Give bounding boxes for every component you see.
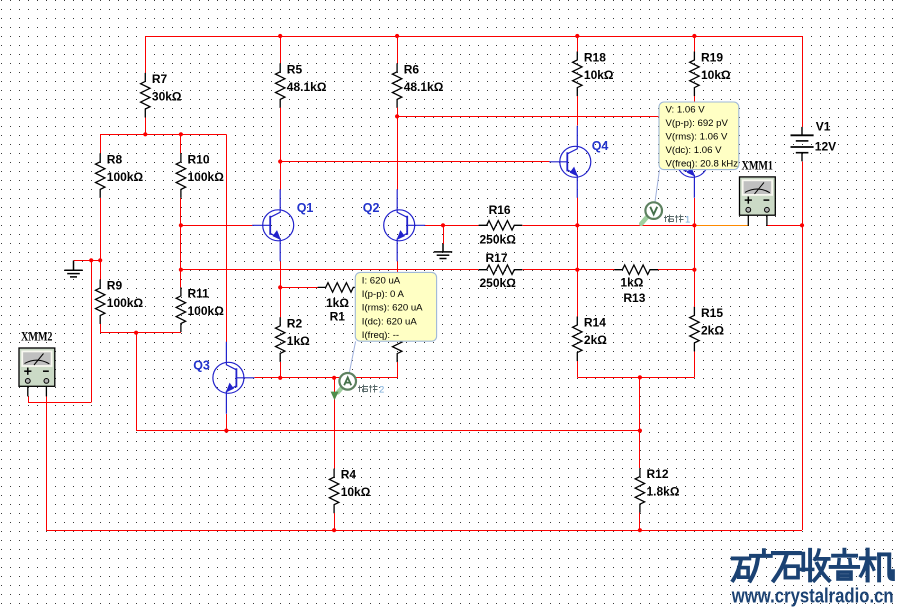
svg-text:R6: R6 xyxy=(404,62,420,76)
wire R13 right xyxy=(657,269,659,271)
resistor R16 xyxy=(479,221,523,230)
wire R6 top xyxy=(397,36,399,63)
svg-text:R8: R8 xyxy=(107,152,123,166)
wire R18 top xyxy=(577,36,579,52)
wire R1 right xyxy=(360,287,362,289)
resistor R11 xyxy=(176,287,185,332)
junction top R5 xyxy=(278,34,282,38)
svg-text:I(dc): 620 uA: I(dc): 620 uA xyxy=(362,316,418,327)
svg-text:V: 1.06 V: V: 1.06 V xyxy=(666,105,706,116)
svg-text:R15: R15 xyxy=(701,306,723,320)
battery V1 xyxy=(791,127,814,161)
wire V1 bottom to rail xyxy=(802,161,804,530)
wire R2 bottom xyxy=(280,362,282,378)
svg-text:R5: R5 xyxy=(287,62,303,76)
svg-text:V(rms): 1.06 V: V(rms): 1.06 V xyxy=(666,132,728,143)
wire XMM2 + link xyxy=(28,402,91,404)
wire R3 bottom xyxy=(397,362,399,378)
svg-text:R14: R14 xyxy=(584,316,606,330)
wire XMM1 - lead xyxy=(766,215,768,226)
wire Q2 base to ground node xyxy=(425,225,478,227)
wire R2 top xyxy=(280,287,282,317)
junction R9-R11 link drop xyxy=(134,331,138,335)
resistor R3 xyxy=(393,318,402,363)
wire R12 bottom xyxy=(639,513,641,531)
junction R8/R9 xyxy=(98,258,102,262)
watermark logo text (kuang shi shou yin ji) xyxy=(733,550,893,581)
wire R10 top xyxy=(180,134,182,153)
resistor R4 xyxy=(329,469,338,514)
wire Q4 emitter to R14 xyxy=(577,197,579,316)
svg-text:1kΩ: 1kΩ xyxy=(326,296,349,310)
wire R6 node to Q5 base (h) xyxy=(397,116,660,118)
svg-text:Q3: Q3 xyxy=(193,358,210,372)
svg-text:I: 620 uA: I: 620 uA xyxy=(362,275,401,286)
svg-text:Q1: Q1 xyxy=(297,201,314,215)
svg-text:10kΩ: 10kΩ xyxy=(701,68,731,82)
wire R5 bottom xyxy=(280,108,282,162)
wire R9 bottom xyxy=(100,324,102,333)
wire R18 bottom xyxy=(577,96,579,125)
svg-text:R1: R1 xyxy=(330,310,346,324)
resistor R6 xyxy=(392,63,401,108)
svg-text:100kΩ: 100kΩ xyxy=(107,170,144,184)
wire R15 top xyxy=(694,270,696,307)
resistor R13 xyxy=(614,265,658,274)
wire Q3 emitter to rail xyxy=(226,414,228,431)
junction R10 col/R17 line xyxy=(179,268,183,272)
svg-text:1kΩ: 1kΩ xyxy=(287,334,310,348)
junction top R19 xyxy=(692,34,696,38)
svg-text:100kΩ: 100kΩ xyxy=(188,304,225,318)
wire R7 bottom xyxy=(145,118,147,135)
resistor R5 xyxy=(276,63,285,108)
junction Q2 base/ground xyxy=(441,223,445,227)
junction XMM2 riser xyxy=(89,258,93,262)
tooltip probe 1 measurements xyxy=(659,102,739,170)
probe 1 (V) xyxy=(641,202,662,224)
wire top rail xyxy=(145,36,802,38)
wire XMM1 - to V1 net xyxy=(767,225,802,227)
svg-text:V(freq): 20.8 kHz: V(freq): 20.8 kHz xyxy=(666,159,739,170)
probe 2 (A) xyxy=(331,373,356,400)
label probe 1 xyxy=(664,215,684,223)
svg-text:Q4: Q4 xyxy=(592,139,609,153)
svg-text:R18: R18 xyxy=(584,51,606,65)
svg-text:R9: R9 xyxy=(107,278,123,292)
svg-text:V(p-p): 692 pV: V(p-p): 692 pV xyxy=(666,118,729,129)
ground GND left xyxy=(64,261,82,277)
wire R3 top xyxy=(397,262,399,318)
wire R8 top xyxy=(100,134,102,153)
svg-text:1kΩ: 1kΩ xyxy=(620,276,643,290)
junction R12 bottom xyxy=(638,528,642,532)
multimeter XMM2 xyxy=(19,348,55,386)
wire R19 top xyxy=(694,36,696,52)
wire XMM2 + lead lower xyxy=(28,396,30,402)
multimeter XMM1 xyxy=(740,177,776,215)
svg-text:I(freq): --: I(freq): -- xyxy=(362,330,399,341)
wire Q3 base node line xyxy=(254,377,397,379)
svg-text:I(rms): 620 uA: I(rms): 620 uA xyxy=(362,303,423,314)
svg-text:250kΩ: 250kΩ xyxy=(480,232,517,246)
resistor R15 xyxy=(690,307,699,352)
wire Q1 emitter node to R1 xyxy=(280,287,318,289)
svg-text:2kΩ: 2kΩ xyxy=(701,323,724,337)
transistor Q2 xyxy=(384,189,426,261)
wire R4 bottom xyxy=(334,513,336,530)
wire R16 left xyxy=(443,225,479,227)
wire R11 top xyxy=(180,270,182,288)
wire R5 top xyxy=(280,36,282,63)
wire R13 to R15 node xyxy=(658,269,694,271)
wire R8-R7-R10 link xyxy=(100,134,226,136)
wire R17 left xyxy=(181,269,479,271)
wire R4 top xyxy=(334,468,336,469)
junction R17/R13/R14 xyxy=(575,268,579,272)
wire R11 node to R17 xyxy=(181,269,478,271)
svg-text:XMM1: XMM1 xyxy=(742,157,774,172)
wire R10 to R11 link xyxy=(180,225,182,269)
svg-text:R12: R12 xyxy=(647,467,669,481)
svg-text:www.crystalradio.cn: www.crystalradio.cn xyxy=(731,586,894,608)
resistor R17 xyxy=(479,265,523,274)
svg-text:R4: R4 xyxy=(341,468,357,482)
leader line probe 2 xyxy=(349,341,355,372)
svg-text:XMM2: XMM2 xyxy=(21,329,53,344)
resistor R1 xyxy=(318,283,362,292)
junction R5/Q1 collector/Q4 base xyxy=(278,159,282,163)
resistor R8 xyxy=(96,153,105,198)
wire R17 to R13 xyxy=(531,269,617,271)
svg-text:48.1kΩ: 48.1kΩ xyxy=(404,80,444,94)
wire R9 top xyxy=(100,260,102,279)
wire R11 bottom xyxy=(180,331,182,334)
junction top R18 xyxy=(575,34,579,38)
svg-text:R7: R7 xyxy=(152,72,168,86)
junction top R6 xyxy=(395,34,399,38)
resistor R9 xyxy=(96,279,105,324)
svg-text:1: 1 xyxy=(685,215,690,226)
svg-text:100kΩ: 100kΩ xyxy=(188,170,225,184)
wire R7 top xyxy=(145,36,147,73)
svg-text:R16: R16 xyxy=(489,203,511,217)
junction XMM1 -/V1 xyxy=(800,223,804,227)
svg-text:250kΩ: 250kΩ xyxy=(480,276,517,290)
wire XMM1 + lead xyxy=(747,215,749,226)
wire XMM2 + riser xyxy=(91,260,93,402)
label probe 2 xyxy=(358,385,378,393)
wire R1 left xyxy=(280,287,318,289)
transistor Q5 xyxy=(666,126,708,198)
junction Q1 base tap xyxy=(179,223,183,227)
transistor Q1 xyxy=(252,189,294,261)
wire R12 top xyxy=(639,467,641,469)
junction rail/R12 xyxy=(638,429,642,433)
wire R6 to Q2 collector xyxy=(397,107,399,189)
resistor R12 xyxy=(635,468,644,513)
wire Q1 base xyxy=(181,225,252,227)
junction R4 bottom xyxy=(332,528,336,532)
junction probe 2/R4 xyxy=(332,376,336,380)
wire Q2 emitter to R3 xyxy=(397,262,399,313)
wire R1 to Q2 emitter column (hidden) xyxy=(361,287,397,289)
junction R14-R15 mid xyxy=(638,375,642,379)
wire R8 bottom xyxy=(100,198,102,260)
svg-text:2: 2 xyxy=(379,385,384,396)
svg-text:R19: R19 xyxy=(701,51,723,65)
svg-text:R11: R11 xyxy=(188,286,210,300)
svg-text:R2: R2 xyxy=(287,316,303,330)
wire V1 top xyxy=(802,36,804,127)
wire Q1 collector to Q4 base xyxy=(280,161,549,163)
resistor R2 xyxy=(276,317,285,362)
resistor R18 xyxy=(573,52,582,97)
wire R4 top xyxy=(334,378,336,468)
wire R14 top xyxy=(577,270,579,317)
wire Q2 base ground stub xyxy=(443,225,445,244)
junction R7 bottom xyxy=(143,132,147,136)
junction R2/Q3 base xyxy=(278,376,282,380)
wire R15 bottom xyxy=(694,351,696,377)
wire R19 bottom xyxy=(694,96,696,126)
wire Q3 collector column xyxy=(226,134,228,342)
wire Q3 emitter rail xyxy=(136,430,640,432)
svg-text:30kΩ: 30kΩ xyxy=(152,89,182,103)
junction Q1 emitter/R1/R2 xyxy=(278,285,282,289)
wire probe net to XMM1 + (orange) xyxy=(694,225,748,227)
wire R6 bottom xyxy=(397,108,399,117)
svg-text:2kΩ: 2kΩ xyxy=(584,333,607,347)
wire Q5 emitter to R15 xyxy=(694,198,696,307)
wire R17 right xyxy=(522,269,530,271)
tooltip probe 2 measurements xyxy=(355,272,436,341)
svg-text:12V: 12V xyxy=(815,139,836,153)
resistor R19 xyxy=(690,52,699,97)
wire R12 top xyxy=(639,377,641,468)
resistor R10 xyxy=(176,153,185,198)
svg-text:R17: R17 xyxy=(486,251,508,265)
junction R13/R15 xyxy=(692,268,696,272)
wire R10 bottom xyxy=(180,198,182,225)
svg-text:1.8kΩ: 1.8kΩ xyxy=(647,485,680,499)
junction Q4 emitter/R16 line xyxy=(575,223,579,227)
svg-text:Q2: Q2 xyxy=(363,201,380,215)
wire Q5 base stub link (hidden) xyxy=(660,161,667,163)
wire R14 bottom xyxy=(577,361,579,377)
transistor Q3 xyxy=(213,342,255,414)
wire XMM2 - lead xyxy=(45,386,47,396)
wire Q1 emitter to R1/R2 node xyxy=(280,262,282,288)
wire R13 left xyxy=(577,269,614,271)
wire R16 right xyxy=(522,225,530,227)
wire R9-R11 bottom link xyxy=(100,332,181,334)
junction Q3 emitter rail xyxy=(224,429,228,433)
svg-text:I(p-p): 0 A: I(p-p): 0 A xyxy=(362,289,405,300)
wire R5 to Q1 collector xyxy=(280,107,282,189)
svg-text:R13: R13 xyxy=(623,291,645,305)
leader line probe 1 xyxy=(655,170,660,202)
svg-text:V(dc): 1.06 V: V(dc): 1.06 V xyxy=(666,145,723,156)
svg-text:100kΩ: 100kΩ xyxy=(107,296,144,310)
wire ground link left xyxy=(74,260,101,262)
resistor R7 xyxy=(141,73,150,118)
svg-text:10kΩ: 10kΩ xyxy=(341,485,371,499)
svg-text:10kΩ: 10kΩ xyxy=(584,68,614,82)
wire R14-R15 bottom link xyxy=(577,377,694,379)
junction R6/Q2 collector xyxy=(395,114,399,118)
wire left drop to emitter rail xyxy=(136,333,138,431)
transistor Q4 xyxy=(549,126,591,198)
ground GND Q2 base xyxy=(434,244,452,259)
wire XMM2 + lead xyxy=(27,386,29,396)
resistor R14 xyxy=(573,317,582,362)
svg-text:48.1kΩ: 48.1kΩ xyxy=(287,80,327,94)
junction R10 top xyxy=(179,132,183,136)
wire XMM2 - drop xyxy=(46,396,48,530)
junction Q5 emitter/probe 1 xyxy=(692,223,696,227)
wire R16 to Q5 emitter node xyxy=(531,225,695,227)
wire bottom rail xyxy=(46,530,802,532)
wire Q5 base riser (hidden) xyxy=(660,116,662,161)
svg-text:V1: V1 xyxy=(816,119,831,133)
svg-text:R10: R10 xyxy=(188,152,210,166)
